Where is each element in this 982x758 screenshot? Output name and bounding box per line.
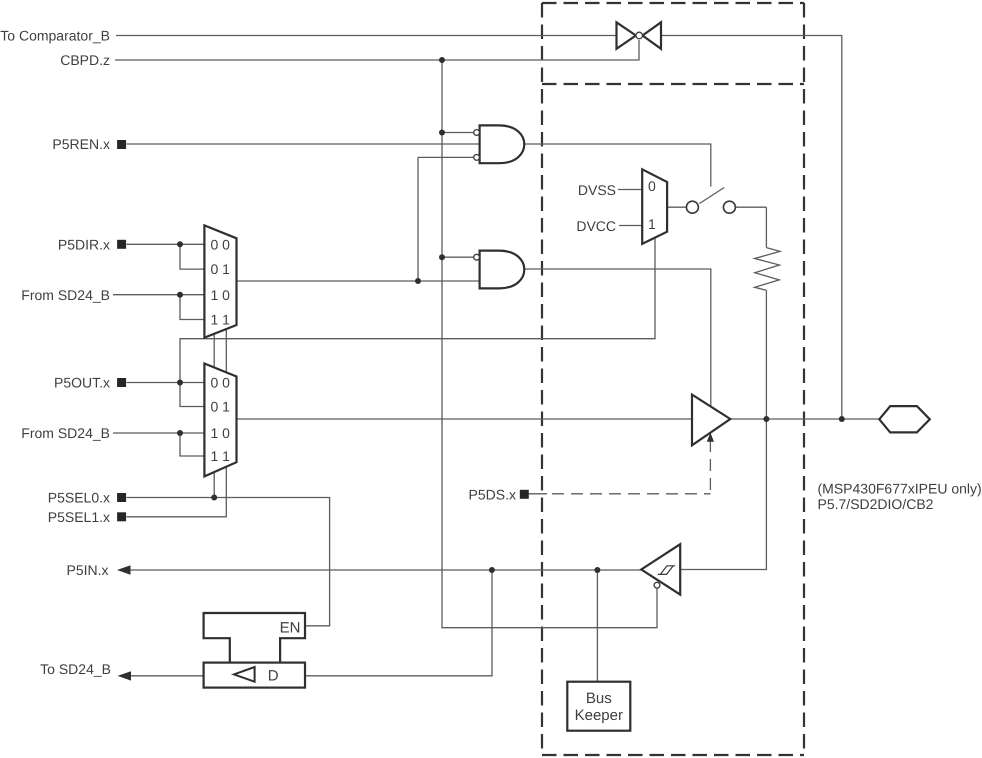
svg-text:Bus: Bus xyxy=(586,690,612,707)
svg-text:P5IN.x: P5IN.x xyxy=(66,562,108,578)
svg-text:1: 1 xyxy=(648,216,656,232)
svg-text:P5DIR.x: P5DIR.x xyxy=(58,237,110,253)
svg-text:DVCC: DVCC xyxy=(576,218,616,234)
svg-text:1 0: 1 0 xyxy=(211,287,231,303)
svg-text:0 1: 0 1 xyxy=(211,399,231,415)
svg-text:EN: EN xyxy=(280,619,301,636)
svg-text:0: 0 xyxy=(648,178,656,194)
svg-text:D: D xyxy=(268,667,279,684)
svg-text:0 0: 0 0 xyxy=(211,236,231,252)
svg-text:1 1: 1 1 xyxy=(211,448,231,464)
svg-text:To SD24_B: To SD24_B xyxy=(40,661,111,677)
svg-text:From SD24_B: From SD24_B xyxy=(21,287,110,303)
svg-text:0 0: 0 0 xyxy=(211,375,231,391)
svg-text:P5SEL1.x: P5SEL1.x xyxy=(48,509,110,525)
svg-text:1 1: 1 1 xyxy=(211,312,231,328)
svg-text:To Comparator_B: To Comparator_B xyxy=(0,28,110,44)
svg-text:From SD24_B: From SD24_B xyxy=(21,425,110,441)
svg-text:P5OUT.x: P5OUT.x xyxy=(54,375,110,391)
svg-text:P5SEL0.x: P5SEL0.x xyxy=(48,490,110,506)
svg-text:P5DS.x: P5DS.x xyxy=(469,486,516,502)
svg-text:1 0: 1 0 xyxy=(211,425,231,441)
svg-text:(MSP430F677xIPEU only): (MSP430F677xIPEU only) xyxy=(818,480,982,496)
svg-text:0 1: 0 1 xyxy=(211,261,231,277)
svg-text:CBPD.z: CBPD.z xyxy=(60,52,110,68)
svg-text:P5REN.x: P5REN.x xyxy=(52,136,110,152)
svg-text:DVSS: DVSS xyxy=(578,182,616,198)
svg-text:P5.7/SD2DIO/CB2: P5.7/SD2DIO/CB2 xyxy=(818,496,934,512)
svg-text:Keeper: Keeper xyxy=(575,707,623,724)
